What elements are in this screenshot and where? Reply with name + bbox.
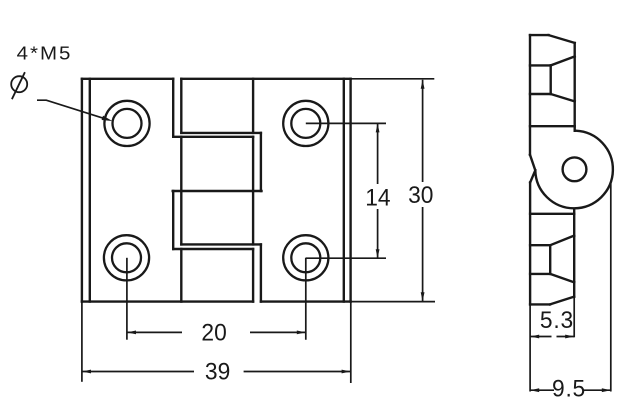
dim 5.3: dimension line — [530, 336, 574, 338]
dim 5.3: extension line right — [573, 297, 575, 338]
arrow dim39 left — [82, 370, 91, 374]
knuckle: joint line 3 upper — [181, 243, 261, 245]
svg-text:4*M5: 4*M5 — [17, 43, 73, 64]
side view: countersink hole 2 upper cone — [550, 236, 574, 246]
side view: upper leaf top bevel — [549, 35, 575, 43]
dim 14: extension line top — [306, 122, 386, 124]
arrow dim30 down — [421, 292, 425, 301]
dim 20: extension line left — [126, 258, 128, 340]
hole bottom-left outer — [104, 235, 149, 280]
dim 30: extension line bottom — [351, 301, 435, 303]
arrow dim20 left — [127, 331, 136, 335]
side view: pin hole — [563, 157, 587, 181]
dim 14: extension line bottom — [306, 257, 386, 259]
arrow dim5.3 left — [530, 335, 539, 339]
side view: lower leaf left edge — [529, 182, 531, 304]
side view: countersink hole 1 top line — [530, 64, 551, 66]
knuckle: joint line 1 upper — [181, 132, 261, 134]
arrow dim9.5 right — [602, 388, 611, 392]
hole top-right outer — [283, 101, 328, 146]
side view: countersink hole 1 upper cone — [551, 56, 575, 65]
svg-text:5.3: 5.3 — [540, 306, 574, 333]
diameter symbol circle — [11, 76, 27, 92]
side view: lower leaf bottom bevel — [550, 297, 574, 305]
knuckle: right plate left edge band4 — [260, 244, 262, 301]
dim 9.5: extension line right — [610, 184, 612, 392]
front view: right plate inner fold line — [343, 79, 345, 302]
dim 14: dimension line — [377, 123, 379, 258]
knuckle: barrel right line band4 — [252, 249, 254, 302]
side view: lower leaf bottom edge — [530, 303, 550, 305]
side view: countersink hole 1 bottom line — [530, 93, 551, 95]
svg-text:14: 14 — [365, 184, 390, 211]
dim 20: extension line right — [305, 258, 307, 340]
knuckle: joint line 3 lower — [173, 248, 253, 250]
side view: lower leaf knuckle boundary — [530, 213, 574, 215]
knuckle: left plate right edge middle segment — [172, 191, 174, 249]
arrow diameter leader — [102, 116, 113, 121]
arrow dim5.3 right — [565, 335, 574, 339]
arrow dim39 right — [342, 370, 351, 374]
side view: countersink hole 2 lower cone — [550, 274, 574, 282]
knuckle: barrel right line band1 — [252, 79, 254, 133]
hole top-left outer — [104, 101, 149, 146]
knuckle: barrel left line band2-3 — [180, 137, 182, 245]
svg-text:39: 39 — [205, 358, 230, 385]
dim 9.5: extension line left — [529, 304, 531, 391]
side view: countersink hole 1 bore line — [550, 65, 552, 94]
svg-text:20: 20 — [201, 319, 226, 346]
hole top-right inner — [291, 109, 320, 138]
hole top-left inner — [113, 109, 142, 138]
front view: right plate right edge — [349, 79, 351, 302]
front view: top edge left segment — [82, 78, 173, 80]
side view: countersink hole 2 bottom line — [530, 273, 550, 275]
knuckle: joint line 1 lower — [173, 136, 253, 138]
svg-text:30: 30 — [408, 181, 433, 208]
side view: countersink hole 1 lower cone — [551, 94, 575, 101]
arrow dim9.5 left — [530, 388, 539, 392]
knuckle: right plate left edge band2 — [260, 133, 262, 191]
side view: upper leaf top edge — [530, 34, 549, 36]
dim 39: dimension line — [82, 371, 351, 373]
side view: countersink hole 2 top line — [530, 244, 550, 246]
diameter leader line — [37, 100, 104, 118]
side view: upper leaf curl slant and knuckle lobe arc — [530, 131, 613, 209]
arrow dim14 down — [376, 249, 380, 258]
front view: bottom edge right segment — [261, 300, 351, 302]
hole bottom-left inner — [112, 243, 141, 272]
arrow dim20 right — [297, 331, 306, 335]
side view: lower leaf right edge — [573, 210, 575, 297]
front view: top edge right segment — [181, 78, 350, 80]
arrow dim14 up — [376, 123, 380, 132]
diameter symbol slash — [12, 72, 25, 99]
dim 39: extension line right — [350, 302, 352, 383]
knuckle: left plate right edge upper segment — [172, 79, 174, 137]
front view: left plate inner fold line — [89, 79, 91, 302]
arrow dim30 up — [421, 80, 425, 89]
front view: left plate left edge — [81, 79, 83, 302]
knuckle: joint line 2 — [173, 190, 262, 192]
knuckle: barrel right line band2-3 — [252, 137, 254, 245]
hole bottom-right inner — [291, 243, 320, 272]
dim 20: dimension line — [127, 331, 306, 333]
dim 30: dimension line — [422, 80, 424, 301]
svg-text:9.5: 9.5 — [552, 375, 586, 402]
side view: upper leaf knuckle boundary — [530, 125, 575, 127]
knuckle: barrel left line band4 — [180, 249, 182, 302]
side view: upper leaf left edge — [529, 35, 531, 155]
side view: lower leaf top bevel — [530, 170, 535, 182]
side view: upper leaf right edge — [574, 43, 576, 131]
dim 9.5: dimension line — [530, 389, 611, 391]
front view: bottom edge left segment — [82, 300, 253, 302]
side view: countersink hole 2 bore line — [549, 245, 551, 274]
dim 39: extension line left — [81, 302, 83, 382]
dim 30: extension line top — [351, 78, 435, 80]
knuckle: barrel left line band1 — [180, 79, 182, 133]
hole bottom-right outer — [283, 235, 328, 280]
